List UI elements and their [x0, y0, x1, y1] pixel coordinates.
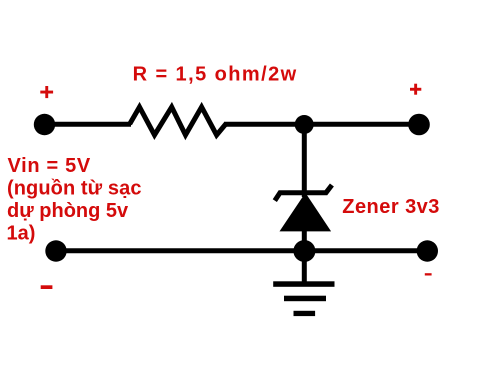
svg-text:R = 1,5 ohm/2w: R = 1,5 ohm/2w	[133, 64, 298, 86]
svg-text:Vin = 5V: Vin = 5V	[8, 155, 91, 177]
svg-text:(nguồn từ sạc: (nguồn từ sạc	[7, 178, 142, 200]
svg-text:dự phòng 5v: dự phòng 5v	[7, 200, 129, 222]
svg-text:Zener 3v3: Zener 3v3	[342, 196, 440, 218]
svg-text:1a): 1a)	[7, 223, 36, 245]
